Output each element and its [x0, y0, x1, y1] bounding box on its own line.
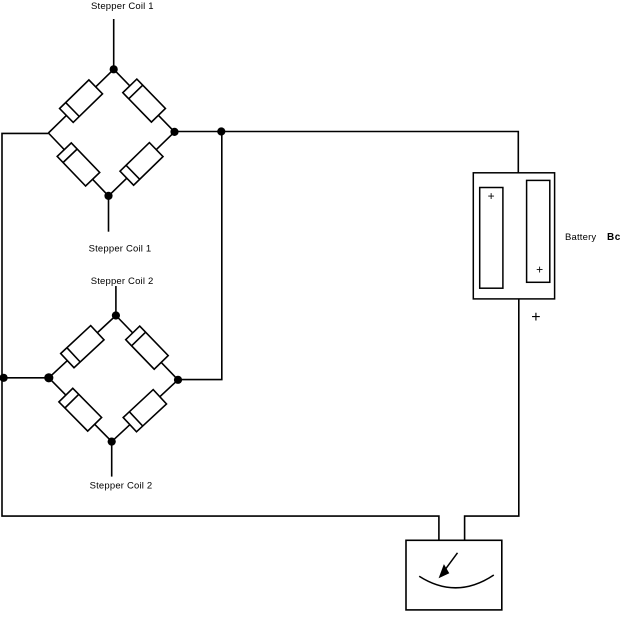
- svg-text:Stepper Coil 1: Stepper Coil 1: [91, 1, 154, 12]
- svg-text:+: +: [488, 189, 495, 203]
- svg-text:Stepper Coil 2: Stepper Coil 2: [90, 481, 153, 492]
- svg-text:Stepper Coil 1: Stepper Coil 1: [89, 243, 152, 254]
- svg-text:+: +: [531, 309, 540, 326]
- svg-text:Stepper Coil 2: Stepper Coil 2: [91, 276, 154, 287]
- svg-text:+: +: [536, 263, 543, 277]
- svg-text:Battery: Battery: [565, 232, 596, 243]
- svg-text:Bc: Bc: [607, 232, 620, 243]
